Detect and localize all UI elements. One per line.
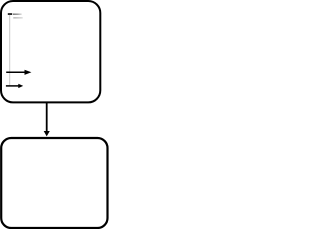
arrow 1 wire — [6, 71, 25, 73]
transition arrowhead — [44, 131, 50, 136]
lifeline (vertical light line) — [9, 15, 11, 85]
arrow 2 wire — [6, 85, 19, 87]
node label dash (tiny dark tick at lifeline top) — [8, 13, 12, 15]
arrow 1 head — [25, 70, 32, 75]
arrow 2 head — [18, 84, 23, 88]
state box S2 (bottom rounded rectangle) — [1, 138, 107, 228]
greeked text line B — [13, 17, 22, 18]
transition wire S1 -> S2 (vertical stem) — [46, 102, 48, 131]
state box S1 (top rounded rectangle) — [1, 1, 100, 102]
greeked text line A — [13, 14, 22, 15]
